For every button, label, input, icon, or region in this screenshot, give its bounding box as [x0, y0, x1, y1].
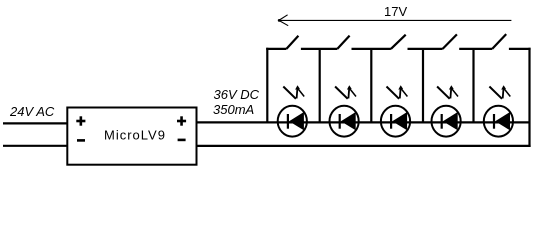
svg-text:350mA: 350mA	[213, 102, 254, 117]
switch S4 blade	[443, 34, 457, 49]
terminal + (input)	[76, 116, 85, 125]
wire: bypass vertical 5	[472, 49, 474, 123]
svg-text:MicroLV9: MicroLV9	[104, 128, 166, 143]
wire: bypass vertical 4	[422, 49, 424, 123]
switch S3 blade	[391, 35, 406, 49]
switch S2 blade	[337, 36, 349, 49]
terminal - (input)	[77, 139, 85, 142]
wire: AC input bottom	[3, 145, 67, 147]
wire: switch rail segments	[266, 48, 530, 50]
wire: right return vertical	[528, 48, 530, 147]
svg-text:36V DC: 36V DC	[214, 87, 260, 102]
switch S1 blade	[286, 36, 298, 49]
wire: bypass vertical 1	[266, 48, 268, 123]
annotation arrow 17V	[279, 15, 512, 26]
LED D1	[278, 85, 307, 136]
LED D4	[432, 85, 461, 136]
wire: bypass vertical 2	[319, 49, 321, 123]
wire: DC + row through LEDs	[197, 121, 530, 123]
svg-text:17V: 17V	[384, 4, 407, 19]
terminal - (output)	[178, 139, 186, 142]
svg-text:24V AC: 24V AC	[9, 104, 55, 119]
LED D5	[484, 85, 513, 136]
wire: DC - return	[197, 145, 531, 147]
LED D3	[381, 85, 410, 136]
LED driver U1 MicroLV9	[67, 108, 196, 165]
wire: bypass vertical 3	[370, 49, 372, 123]
wire: AC input top	[3, 122, 67, 124]
switch S5 blade	[492, 34, 506, 49]
LED D2	[330, 85, 359, 136]
terminal + (output)	[177, 116, 186, 125]
